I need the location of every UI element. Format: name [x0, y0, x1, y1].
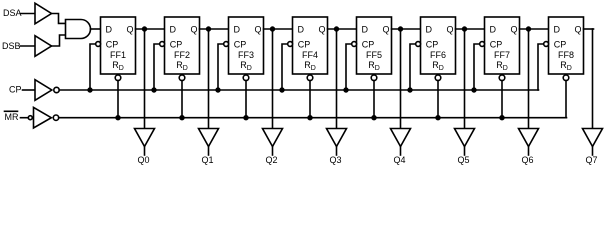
- svg-text:Q2: Q2: [265, 155, 277, 165]
- flip-flop FF2: [165, 17, 200, 74]
- svg-text:Q: Q: [190, 25, 197, 35]
- svg-text:Q4: Q4: [393, 155, 405, 165]
- svg-text:Q3: Q3: [329, 155, 341, 165]
- buffer Q4 output: [391, 129, 411, 147]
- wire Q1 column: [208, 29, 210, 129]
- wire MR bus: [59, 117, 567, 119]
- wire Q4 stub: [400, 147, 402, 156]
- junction FF4 CP riser / CP bus: [280, 88, 284, 92]
- node Q6 tap: [527, 27, 531, 31]
- wire Q7 stub: [592, 147, 594, 156]
- bubble FF2 RD: [179, 75, 185, 81]
- wire FF3 CP riser: [218, 44, 224, 90]
- AND gate: [66, 20, 91, 39]
- svg-text:Q: Q: [574, 25, 581, 35]
- junction FF3 RD drop / MR bus: [244, 116, 248, 120]
- bubble FF4 CP input: [288, 42, 293, 47]
- svg-text:MR: MR: [5, 112, 19, 122]
- junction FF2 RD drop / MR bus: [180, 116, 184, 120]
- svg-text:CP: CP: [554, 40, 567, 50]
- wire FF2 CP riser: [154, 44, 160, 90]
- wire FF5 Q to FF6 D: [392, 28, 421, 30]
- svg-text:CP: CP: [426, 40, 439, 50]
- junction FF5 CP riser / CP bus: [344, 88, 348, 92]
- bubble FF4 RD: [307, 75, 313, 81]
- buffer Q3 output: [327, 129, 347, 147]
- wire Q1 stub: [208, 147, 210, 156]
- buffer Q7 output: [583, 129, 603, 147]
- svg-text:DSA: DSA: [3, 8, 22, 18]
- svg-text:CP: CP: [362, 40, 375, 50]
- buffer Q6 output: [519, 129, 539, 147]
- svg-text:FF3: FF3: [238, 50, 254, 60]
- svg-text:D: D: [554, 25, 561, 35]
- junction FF7 CP riser / CP bus: [472, 88, 476, 92]
- buffer Q5 output: [455, 129, 475, 147]
- bubble FF6 RD: [435, 75, 441, 81]
- wire FF5 CP riser: [346, 44, 352, 90]
- wire FF2 Q to FF3 D: [200, 28, 229, 30]
- node Q5 tap: [463, 27, 467, 31]
- bubble FF6 CP input: [416, 42, 421, 47]
- bubble FF5 RD: [371, 75, 377, 81]
- bubble FF1 RD: [115, 75, 121, 81]
- flip-flop FF5: [357, 17, 392, 74]
- svg-text:FF2: FF2: [174, 50, 190, 60]
- svg-text:CP: CP: [234, 40, 247, 50]
- buffer Q2 output: [263, 129, 283, 147]
- wire FF8 RD drop: [565, 81, 567, 118]
- wire FF1 RD drop: [117, 81, 119, 118]
- svg-text:D: D: [362, 25, 369, 35]
- buffer Q1 output: [199, 129, 219, 147]
- wire FF5 RD drop: [373, 81, 375, 118]
- wire Q6 stub: [528, 147, 530, 156]
- bubble FF1 CP input: [96, 42, 101, 47]
- svg-text:CP: CP: [106, 40, 119, 50]
- svg-text:DSB: DSB: [2, 41, 21, 51]
- junction FF3 CP riser / CP bus: [216, 88, 220, 92]
- wire FF7 RD drop: [501, 81, 503, 118]
- wire FF1 Q to FF2 D: [136, 28, 165, 30]
- wire DSA buffer to AND: [52, 14, 66, 24]
- bubble FF2 CP input: [160, 42, 165, 47]
- wire FF1 CP riser: [90, 44, 96, 90]
- junction FF1 RD drop / MR bus: [116, 116, 120, 120]
- wire MR input: [21, 117, 29, 119]
- node Q3 tap: [335, 27, 339, 31]
- buffer CP: [35, 80, 52, 101]
- junction FF7 RD drop / MR bus: [500, 116, 504, 120]
- svg-text:CP: CP: [170, 40, 183, 50]
- wire Q0 column: [144, 29, 146, 129]
- svg-text:FF7: FF7: [494, 50, 510, 60]
- bubble FF5 CP input: [352, 42, 357, 47]
- junction FF6 RD drop / MR bus: [436, 116, 440, 120]
- svg-text:FF6: FF6: [430, 50, 446, 60]
- wire FF7 CP riser: [474, 44, 480, 90]
- wire FF4 RD drop: [309, 81, 311, 118]
- wire DSB input: [21, 45, 36, 47]
- svg-text:Q: Q: [446, 25, 453, 35]
- svg-text:D: D: [490, 25, 497, 35]
- svg-text:Q: Q: [254, 25, 261, 35]
- bubble FF7 RD: [499, 75, 505, 81]
- svg-text:Q: Q: [510, 25, 517, 35]
- svg-text:Q5: Q5: [457, 155, 469, 165]
- bubble MR buffer input: [28, 116, 32, 120]
- svg-text:CP: CP: [298, 40, 311, 50]
- wire Q7 column: [592, 29, 594, 129]
- junction FF6 CP riser / CP bus: [408, 88, 412, 92]
- wire Q2 column: [272, 29, 274, 129]
- svg-text:Q1: Q1: [201, 155, 213, 165]
- flip-flop FF8: [549, 17, 584, 74]
- flip-flop FF3: [229, 17, 264, 74]
- wire Q6 column: [528, 29, 530, 129]
- wire FF4 Q to FF5 D: [328, 28, 357, 30]
- wire FF8 Q output: [584, 28, 594, 30]
- wire FF7 Q to FF8 D: [520, 28, 549, 30]
- wire Q5 stub: [464, 147, 466, 156]
- svg-text:CP: CP: [490, 40, 503, 50]
- flip-flop FF4: [293, 17, 328, 74]
- svg-text:D: D: [106, 25, 113, 35]
- wire CP bus: [59, 89, 538, 91]
- svg-text:D: D: [298, 25, 305, 35]
- bubble FF8 CP input: [544, 42, 549, 47]
- wire FF4 CP riser: [282, 44, 288, 90]
- wire Q5 column: [464, 29, 466, 129]
- buffer DSA: [35, 3, 52, 24]
- bubble MR buffer output: [53, 115, 58, 120]
- wire DSB buffer to AND: [52, 35, 66, 46]
- wire FF2 RD drop: [181, 81, 183, 118]
- bubble FF3 RD: [243, 75, 249, 81]
- svg-text:Q: Q: [382, 25, 389, 35]
- wire FF3 Q to FF4 D: [264, 28, 293, 30]
- wire FF6 RD drop: [437, 81, 439, 118]
- junction FF4 RD drop / MR bus: [308, 116, 312, 120]
- wire Q2 stub: [272, 147, 274, 156]
- bubble CP buffer output: [54, 87, 59, 92]
- svg-text:Q6: Q6: [521, 155, 533, 165]
- bubble FF8 RD: [563, 75, 569, 81]
- buffer MR: [34, 107, 52, 128]
- svg-text:FF5: FF5: [366, 50, 382, 60]
- svg-text:D: D: [234, 25, 241, 35]
- svg-text:Q: Q: [126, 25, 133, 35]
- wire Q3 column: [336, 29, 338, 129]
- wire FF6 CP riser: [410, 44, 416, 90]
- node Q4 tap: [399, 27, 403, 31]
- svg-text:Q: Q: [318, 25, 325, 35]
- svg-text:FF8: FF8: [558, 50, 574, 60]
- junction FF5 RD drop / MR bus: [372, 116, 376, 120]
- node Q0 tap: [143, 27, 147, 31]
- wire DSA input: [21, 13, 36, 15]
- junction FF2 CP riser / CP bus: [152, 88, 156, 92]
- svg-text:D: D: [426, 25, 433, 35]
- node Q1 tap: [207, 27, 211, 31]
- wire Q3 stub: [336, 147, 338, 156]
- bubble FF7 CP input: [480, 42, 485, 47]
- svg-text:FF4: FF4: [302, 50, 318, 60]
- wire FF8 CP riser: [538, 44, 544, 90]
- svg-text:Q7: Q7: [585, 155, 597, 165]
- svg-text:Q0: Q0: [137, 155, 149, 165]
- junction FF1 CP riser / CP bus: [88, 88, 92, 92]
- wire CP input: [23, 89, 36, 91]
- buffer DSB: [35, 36, 52, 57]
- wire FF6 Q to FF7 D: [456, 28, 485, 30]
- flip-flop FF6: [421, 17, 456, 74]
- wire Q4 column: [400, 29, 402, 129]
- wire FF3 RD drop: [245, 81, 247, 118]
- flip-flop FF7: [485, 17, 520, 74]
- flip-flop FF1: [101, 17, 136, 74]
- bubble FF3 CP input: [224, 42, 229, 47]
- svg-text:D: D: [170, 25, 177, 35]
- wire AND to FF1 D: [91, 28, 101, 30]
- node Q2 tap: [271, 27, 275, 31]
- svg-text:FF1: FF1: [110, 50, 126, 60]
- wire Q0 stub: [144, 147, 146, 156]
- svg-text:CP: CP: [9, 85, 22, 95]
- buffer Q0 output: [135, 129, 155, 147]
